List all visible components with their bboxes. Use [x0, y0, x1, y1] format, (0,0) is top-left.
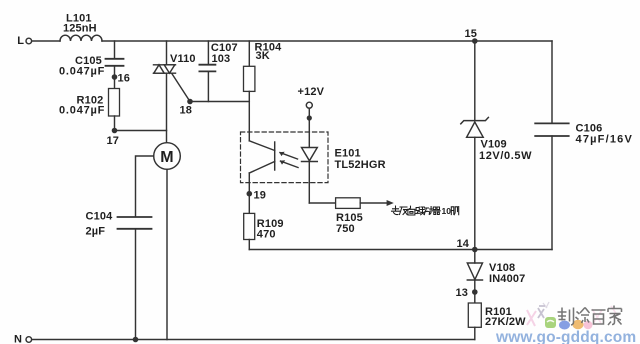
- watermark text: zhi leng bai jia: [558, 306, 622, 326]
- svg-text:27K/2W: 27K/2W: [485, 316, 526, 328]
- label: to reverse driver pin 10 (Chinese): [392, 206, 459, 216]
- terminal L: [17, 35, 31, 47]
- wire horizontal run y=249.5: [249, 249, 552, 251]
- inductor L101 125nH: [60, 13, 102, 42]
- capacitor C104 2uF: [86, 211, 152, 238]
- resistor R104 3K: [244, 42, 283, 92]
- wire V109 to node 14: [474, 137, 476, 249]
- phototransistor of E101: [249, 141, 274, 194]
- svg-text:750: 750: [336, 223, 355, 235]
- capacitor C106 47uF/16V: [535, 123, 633, 146]
- wire rail to R104: [248, 41, 250, 66]
- svg-text:N: N: [14, 334, 22, 344]
- svg-text:10: 10: [442, 206, 452, 216]
- resistor R101 27K/2W: [468, 303, 526, 328]
- wire C106 down and to node 14: [551, 136, 553, 250]
- svg-text:M: M: [160, 149, 173, 166]
- wire rail to C107: [207, 41, 209, 64]
- wire C105 branch from rail: [114, 41, 116, 59]
- svg-text:V109: V109: [481, 139, 507, 151]
- svg-text:17: 17: [107, 135, 120, 147]
- resistor R102 0.047uF: [59, 89, 120, 117]
- wire V110 gate to node 18: [172, 74, 190, 102]
- svg-text:www.go-gddq.com: www.go-gddq.com: [495, 329, 636, 344]
- wire R101 to bottom rail: [474, 327, 476, 339]
- +12V terminal: [298, 86, 325, 108]
- svg-text:18: 18: [180, 105, 193, 117]
- wire node 17 to V110 main line: [115, 130, 167, 132]
- svg-text:0.047µF: 0.047µF: [59, 105, 105, 117]
- resistor R105 750: [336, 198, 363, 235]
- capacitor C105 0.047uF: [59, 55, 124, 78]
- wire bottom rail: [32, 339, 475, 341]
- light arrows: [279, 152, 298, 168]
- svg-text:+12V: +12V: [298, 86, 325, 98]
- wire motor left to C104 branch: [136, 156, 154, 216]
- motor M: [154, 143, 181, 170]
- diode V108 IN4007: [467, 262, 525, 285]
- wire node19 to R109: [248, 194, 250, 214]
- node 19: [247, 190, 267, 202]
- node 14: [457, 238, 478, 252]
- node 16: [112, 73, 130, 85]
- wire top rail: [102, 40, 552, 42]
- wire LED to R105: [309, 202, 335, 204]
- wire C104 to bottom rail: [135, 229, 137, 340]
- svg-text:15: 15: [465, 28, 478, 40]
- node 13: [456, 287, 478, 299]
- svg-text:103: 103: [212, 53, 231, 65]
- wire C105 to node 16: [114, 66, 116, 89]
- svg-text:0.047µF: 0.047µF: [59, 66, 105, 78]
- wire rail to V110: [166, 41, 168, 65]
- svg-text:125nH: 125nH: [63, 23, 97, 35]
- svg-text:E101: E101: [335, 148, 361, 160]
- node 15: [465, 28, 478, 44]
- svg-text:13: 13: [456, 287, 469, 299]
- wire R104 down into optocoupler: [248, 91, 250, 140]
- terminal N: [14, 334, 32, 344]
- optocoupler E101 dashed box: [241, 132, 386, 183]
- svg-text:C104: C104: [86, 211, 114, 223]
- wire L terminal to inductor: [32, 40, 60, 42]
- svg-text:L: L: [17, 35, 24, 47]
- node 17: [107, 128, 120, 147]
- svg-text:47µF/16V: 47µF/16V: [576, 134, 634, 146]
- svg-text:3K: 3K: [256, 50, 270, 62]
- svg-text:IN4007: IN4007: [489, 273, 525, 285]
- capacitor C107 103: [199, 42, 237, 71]
- svg-text:12V/0.5W: 12V/0.5W: [479, 150, 532, 162]
- junction on +12V wire: [307, 115, 312, 120]
- LED of E101: [302, 148, 318, 204]
- svg-text:16: 16: [118, 73, 131, 85]
- junction C104 bottom: [133, 337, 139, 343]
- svg-text:19: 19: [254, 190, 267, 202]
- svg-text:470: 470: [257, 229, 276, 241]
- wire motor down to bottom rail: [166, 169, 168, 339]
- wire rail corner down to C106: [551, 41, 553, 123]
- watermark colored logo blobs: [527, 302, 617, 330]
- zener V109 12V/0.5W: [461, 117, 532, 162]
- wire R102 to node 17: [114, 116, 116, 131]
- svg-text:2µF: 2µF: [86, 226, 106, 238]
- wire +12V down to LED: [308, 108, 310, 147]
- svg-text:V110: V110: [170, 53, 196, 65]
- wire V110 down to motor: [166, 73, 168, 143]
- wire node13 to R101: [474, 292, 476, 303]
- wire R105 to arrow: [360, 200, 394, 206]
- wire C107 to node18 wire: [207, 71, 209, 101]
- resistor R109 470: [244, 213, 284, 240]
- node 18: [180, 99, 193, 117]
- wire rail to V109: [474, 41, 476, 121]
- wire R109 to bottom run: [248, 240, 250, 250]
- wire node14 to V108: [474, 250, 476, 264]
- triac V110: [154, 53, 196, 73]
- svg-text:14: 14: [457, 238, 470, 250]
- wire node 18 to R104 line: [190, 101, 249, 103]
- wire V108 to node 13: [474, 280, 476, 292]
- svg-text:TL52HGR: TL52HGR: [335, 159, 386, 171]
